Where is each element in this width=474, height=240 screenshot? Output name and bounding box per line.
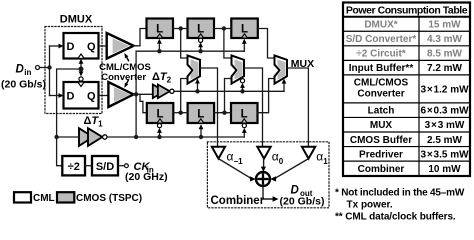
wire U2 out to L4 (140, 94, 147, 112)
svg-text:Q: Q (87, 41, 96, 53)
svg-text:CML: CML (33, 193, 55, 204)
label arrow to U2 (124, 81, 128, 88)
divider div2 box (62, 156, 85, 175)
wire M3 out to alpha1 (287, 68, 308, 147)
DMUX dotted box (45, 27, 102, 114)
svg-text:DMUX: DMUX (60, 14, 93, 26)
table row MUX (370, 120, 465, 131)
svg-text:10 mW: 10 mW (428, 164, 461, 175)
wire U1 out to L1 (134, 29, 147, 46)
svg-text:Predriver: Predriver (359, 149, 403, 160)
FF2 clock bubble (79, 77, 83, 81)
svg-text:CML/CMOS: CML/CMOS (354, 78, 409, 89)
svg-text:α: α (272, 150, 279, 164)
table row combiner (358, 164, 462, 175)
combiner dotted box (207, 142, 329, 208)
svg-text:15 mW: 15 mW (428, 20, 461, 31)
node row2 tap2 (222, 111, 226, 115)
svg-text:S/D: S/D (96, 161, 114, 173)
latch L6 (231, 103, 258, 123)
svg-text:÷2: ÷2 (68, 161, 80, 173)
svg-text:0: 0 (279, 157, 284, 166)
wire M2 out to alpha0 (244, 68, 263, 147)
node Din terminal (36, 66, 40, 70)
node dT1 input junction (54, 135, 58, 139)
wire L1 clock stem (157, 39, 162, 54)
wire div2 to SD (85, 165, 92, 167)
table row DMUX (364, 20, 461, 31)
wire summer to Dout (263, 186, 279, 202)
wire L3 out to MUX3 upper (258, 29, 275, 59)
wire L6 clock stem with bubble (242, 124, 247, 138)
node select tap2 (240, 89, 244, 93)
svg-text:Combiner: Combiner (358, 164, 405, 175)
table row latch (368, 106, 469, 117)
wire Din vertical (49, 46, 51, 96)
wire dT1 input (57, 136, 79, 138)
svg-text:2.5 mW: 2.5 mW (427, 135, 463, 146)
wire L4 clock stem with bubble (157, 124, 162, 140)
wire row1 clock rail (136, 50, 244, 52)
table row SD converter (346, 34, 463, 45)
wire row2 tap2 to MUX2 lower (225, 79, 232, 113)
wire L2 clock stem with bubble (198, 38, 203, 53)
CML/CMOS converter U2 (108, 82, 133, 107)
wire row2 tap1 to MUX1 lower (181, 79, 188, 113)
wire select to M1 (195, 79, 200, 92)
svg-text:4.3 mW: 4.3 mW (427, 34, 463, 45)
svg-text:Converter: Converter (357, 89, 404, 100)
wire select to M3 (282, 79, 287, 92)
latch L4 (147, 103, 174, 123)
table row CMOS buffer (350, 135, 463, 146)
svg-text:D: D (67, 41, 75, 53)
mux M2 (232, 56, 245, 84)
svg-text:3 × 1.2 mW: 3 × 1.2 mW (420, 84, 469, 95)
svg-text:−1: −1 (234, 157, 244, 166)
node riser rail junction (134, 135, 138, 139)
svg-text:(20 GHz): (20 GHz) (125, 171, 168, 183)
tap amp alpha-1 (212, 147, 243, 166)
node FF clock junction (79, 67, 84, 72)
svg-text:3 × 3.5 mW: 3 × 3.5 mW (420, 149, 469, 160)
latch L2 (188, 19, 215, 39)
wire to FF1 D (50, 45, 60, 47)
tap amp alpha0 (257, 147, 284, 166)
svg-text:CMOS (TSPC): CMOS (TSPC) (76, 193, 142, 204)
wire L2 to L3 (214, 28, 231, 30)
svg-text:6 × 0.3 mW: 6 × 0.3 mW (420, 106, 469, 117)
svg-text:D: D (67, 91, 75, 103)
table row div2 circuit (356, 49, 462, 60)
flip-flop FF2 (64, 82, 99, 109)
wire L1 to L2 (173, 28, 188, 30)
CML/CMOS converter U1 (107, 33, 134, 59)
wire alpha1 to summer (270, 159, 308, 182)
wire SD to CKin (118, 165, 124, 167)
wire div2 to junction (57, 137, 63, 166)
svg-text:3 × 3 mW: 3 × 3 mW (425, 120, 465, 131)
svg-text:÷2 Circuit*: ÷2 Circuit* (356, 49, 405, 60)
node row1 tap1 (179, 26, 183, 30)
table row predriver (359, 149, 469, 160)
svg-text:8.5 mW: 8.5 mW (427, 49, 463, 60)
legend CML box (14, 192, 31, 202)
wire tap1 to MUX1 upper (181, 29, 188, 59)
wire FF clock line (80, 62, 82, 75)
flip-flop FF1 (64, 33, 99, 59)
svg-text:CMOS Buffer: CMOS Buffer (350, 135, 412, 146)
svg-text:in: in (24, 68, 31, 77)
svg-text:Combiner: Combiner (211, 195, 265, 207)
latch L1 (147, 19, 174, 39)
svg-text:Power Consumption Table: Power Consumption Table (346, 5, 468, 17)
svg-text:DMUX*: DMUX* (364, 20, 397, 31)
node row1 tap2 (222, 26, 226, 30)
wire to FF2 D (50, 95, 60, 97)
latch L3 (231, 19, 257, 39)
node select tap1 (195, 89, 199, 93)
node Din junction (47, 65, 51, 69)
svg-text:Input Buffer**: Input Buffer** (349, 63, 414, 74)
node riser dT2 tap (134, 92, 138, 96)
svg-text:Q: Q (87, 91, 96, 103)
power table frame (343, 3, 470, 177)
table row input buffer (349, 63, 463, 74)
converter SD box (92, 156, 118, 175)
Din label (16, 64, 32, 78)
wire riser tap to dT2 (134, 93, 154, 95)
legend CMOS box (57, 192, 74, 202)
table row CML CMOS converter (354, 78, 469, 100)
label arrow to U1 (124, 53, 128, 61)
svg-text:7.2 mW: 7.2 mW (427, 63, 463, 74)
svg-text:Latch: Latch (368, 106, 395, 117)
wire L5 clock stem (199, 124, 204, 139)
Dout label (291, 185, 313, 199)
wire select to M2 with bubble (240, 79, 245, 92)
svg-text:(20 Gb/s): (20 Gb/s) (280, 196, 325, 208)
tap amp alpha1 (302, 147, 328, 166)
wire select line (174, 90, 284, 92)
svg-text:** CML data/clock buffers.: ** CML data/clock buffers. (335, 212, 456, 223)
svg-text:D: D (16, 64, 24, 76)
svg-text:Tx power.: Tx power. (347, 200, 393, 211)
delay buffer dT2 (152, 71, 174, 98)
wire L4 to L5 (173, 112, 187, 114)
svg-text:α: α (316, 150, 323, 164)
wire clock riser (135, 51, 137, 137)
wire alpha0 to summer (261, 159, 266, 172)
svg-text:1: 1 (323, 157, 328, 166)
wire FF1 Q out (99, 45, 107, 47)
wire M1 out to alpha-1 (200, 68, 218, 147)
CKin label (134, 161, 154, 174)
mux M1 (188, 56, 201, 84)
node CKin terminal (125, 164, 129, 168)
wire tap2 to MUX2 upper (224, 29, 232, 59)
wire L6 out to MUX3 lower (258, 79, 275, 113)
svg-text:MUX: MUX (370, 120, 393, 131)
delay buffer dT1 (79, 115, 107, 146)
latch L5 (188, 103, 215, 123)
svg-text:S/D Converter*: S/D Converter* (346, 34, 417, 45)
svg-text:α: α (227, 150, 234, 164)
wire L5 to L6 (214, 112, 231, 114)
svg-text:(20 Gb/s): (20 Gb/s) (1, 79, 46, 91)
wire row2 clock rail (107, 136, 244, 138)
wire alpha-1 to summer (218, 159, 255, 182)
svg-text:Converter: Converter (101, 72, 146, 83)
node row2 tap1 (179, 111, 183, 115)
wire DMUX clock feed (57, 69, 81, 137)
summer node (256, 172, 270, 186)
svg-text:* Not included in the 45–mW: * Not included in the 45–mW (335, 188, 465, 199)
wire Din to junction (40, 67, 50, 69)
mux M3 (275, 56, 288, 84)
wire L3 clock stem (242, 39, 247, 52)
wire FF2 Q out (99, 95, 109, 97)
